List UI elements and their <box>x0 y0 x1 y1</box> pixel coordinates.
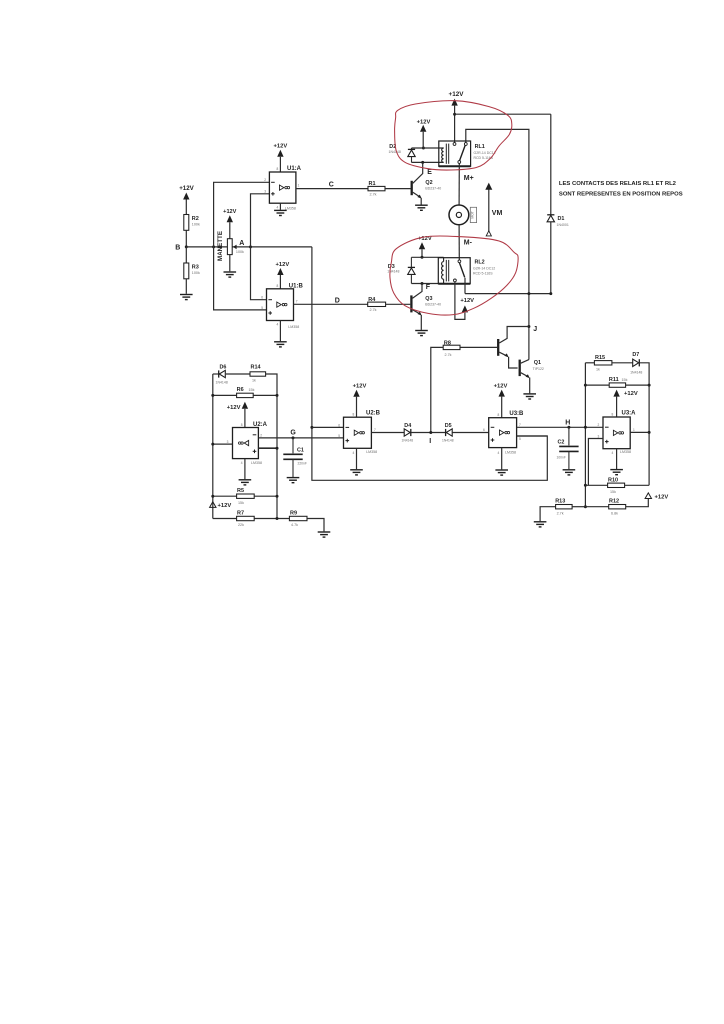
wire U3A output <box>630 431 649 433</box>
svg-text:D6: D6 <box>220 364 227 370</box>
svg-text:4: 4 <box>277 323 279 327</box>
svg-text:+12V: +12V <box>460 298 474 304</box>
svg-text:100k: 100k <box>192 223 200 227</box>
svg-text:SONT REPRESENTES EN POSITION R: SONT REPRESENTES EN POSITION REPOS <box>559 191 683 197</box>
wire B rail to U1A minus and U1B plus <box>214 182 270 247</box>
wire coil bottom to Q3 collector <box>413 284 423 299</box>
wire U2A plus stub <box>258 447 277 449</box>
svg-text:R11: R11 <box>609 377 619 383</box>
wire node B to node A rail <box>186 246 312 248</box>
node I <box>429 431 432 434</box>
svg-text:M+: M+ <box>464 175 474 182</box>
svg-text:2: 2 <box>264 178 266 182</box>
svg-text:2: 2 <box>260 434 262 438</box>
svg-text:+12V: +12V <box>218 503 232 509</box>
svg-text:M-: M- <box>464 240 473 247</box>
ground (U2A) <box>239 480 252 485</box>
svg-text:+12V: +12V <box>353 383 367 389</box>
wire coil top <box>412 147 444 149</box>
svg-text:D1: D1 <box>558 216 565 222</box>
wire D7 to right rail <box>639 363 649 486</box>
svg-text:8: 8 <box>241 423 243 427</box>
relay RL1 G2R-14 <box>439 141 471 166</box>
svg-text:1N4001: 1N4001 <box>557 223 569 227</box>
svg-text:22k: 22k <box>238 523 244 527</box>
power +12V (U2A) <box>242 402 248 409</box>
wire junction to U2B pin6 <box>312 426 344 428</box>
node B <box>185 245 188 248</box>
junction A rail to U2B <box>310 426 313 429</box>
svg-text:RL1: RL1 <box>475 144 485 150</box>
ground (U1B) <box>274 342 287 347</box>
wire U3A plus input to R10 <box>588 439 603 486</box>
wire A rail to U1A plus and U1B minus <box>251 194 270 247</box>
svg-text:BD237-40: BD237-40 <box>425 302 441 306</box>
svg-text:1N4148: 1N4148 <box>387 270 399 274</box>
wire U1A pin4 to ground <box>279 203 281 210</box>
svg-text:7: 7 <box>519 423 521 427</box>
power +12V (R2 divider) <box>183 193 189 200</box>
svg-text:B: B <box>175 245 180 252</box>
wire RL2 coil bottom node F <box>411 283 443 285</box>
svg-text:4: 4 <box>241 461 243 465</box>
power +12V (U1A) <box>277 150 283 157</box>
svg-text:LM358: LM358 <box>505 450 516 454</box>
svg-text:C: C <box>329 182 334 189</box>
wire D1 to relay common junction <box>550 222 552 294</box>
svg-text:G2R-14 DC12: G2R-14 DC12 <box>473 266 495 270</box>
wire U2A minus input <box>213 443 233 445</box>
junction B rail <box>212 245 215 248</box>
wire top feedback <box>213 373 219 375</box>
transistor Q2 BD237 <box>411 181 413 195</box>
wire left rail (oscillator) <box>212 374 214 519</box>
svg-text:U1:B: U1:B <box>289 283 304 289</box>
svg-text:U3:A: U3:A <box>622 411 637 417</box>
resistor R2 <box>184 215 189 231</box>
svg-text:G: G <box>290 429 296 436</box>
svg-text:8: 8 <box>277 284 279 288</box>
ground (R3) <box>180 295 193 300</box>
wire R10 <box>585 484 607 486</box>
svg-text:R14: R14 <box>251 364 262 370</box>
ground (Q1) <box>523 394 536 399</box>
resistor R13 2.7k <box>556 505 573 509</box>
svg-text:15k: 15k <box>622 378 628 382</box>
wire U1B pin4 to ground <box>279 321 281 342</box>
svg-text:R8: R8 <box>444 340 451 346</box>
svg-text:8: 8 <box>498 413 500 417</box>
wire coil bottom to Q2 collector <box>413 162 423 183</box>
svg-text:LM358: LM358 <box>288 325 299 329</box>
capacitor C2 100nF <box>568 427 570 445</box>
svg-text:LM358: LM358 <box>251 461 262 465</box>
svg-text:+12V: +12V <box>417 119 431 125</box>
wire RL2 NO contact to junction <box>464 278 466 294</box>
motor VM <box>449 205 469 225</box>
svg-text:+12V: +12V <box>274 143 288 149</box>
svg-text:Q3: Q3 <box>425 296 432 302</box>
svg-text:15k: 15k <box>249 388 255 392</box>
resistor R9 4.7k <box>289 516 307 520</box>
svg-text:R12: R12 <box>609 499 619 505</box>
svg-text:4.7k: 4.7k <box>291 523 298 527</box>
svg-text:U2:B: U2:B <box>366 410 381 416</box>
svg-text:1k: 1k <box>596 367 600 371</box>
svg-text:3: 3 <box>227 440 229 444</box>
transistor Q1 TIP122 second stage <box>519 360 521 377</box>
wire U3B output to node H <box>517 426 603 428</box>
power +12V triangle (R12) <box>645 493 651 499</box>
wire J to Q1 collector <box>499 327 529 344</box>
wire U2A pin4 to ground <box>244 459 246 480</box>
wire R2 to node B <box>185 230 187 247</box>
svg-text:A: A <box>239 240 244 247</box>
diode D5 1N4148 <box>446 429 453 436</box>
svg-text:R7: R7 <box>237 510 244 516</box>
red freehand circle around RL1 <box>395 101 512 170</box>
ground (MANETTE) <box>224 272 237 277</box>
svg-text:6.8k: 6.8k <box>611 511 618 515</box>
svg-text:+12V: +12V <box>494 383 508 389</box>
resistor R15 1k <box>594 361 612 365</box>
svg-text:MANETTE: MANETTE <box>217 231 224 261</box>
svg-text:8: 8 <box>612 412 614 416</box>
ground (U1A) <box>274 210 287 215</box>
svg-text:1: 1 <box>633 428 635 432</box>
resistor R12 6.8k <box>609 505 626 509</box>
node RL1 coil top <box>422 147 425 150</box>
ground (C1) <box>287 478 300 483</box>
svg-text:U3:B: U3:B <box>509 411 524 417</box>
wire D6 to R14 <box>226 373 250 375</box>
op-amp U3:B LM358 <box>489 418 517 448</box>
wire MANETTE to ground <box>229 255 231 272</box>
svg-text:R4: R4 <box>368 297 376 303</box>
power +12V (MANETTE) <box>227 215 233 222</box>
svg-text:H: H <box>565 420 570 427</box>
ground (C2) <box>563 470 576 475</box>
relay RL2 G2R-14 <box>438 258 470 284</box>
wire U2A output to node G <box>258 437 343 439</box>
svg-text:R15: R15 <box>595 355 605 361</box>
svg-text:6: 6 <box>338 423 340 427</box>
svg-text:3: 3 <box>264 190 266 194</box>
ground (Q2) <box>415 205 428 210</box>
svg-text:1N4148: 1N4148 <box>630 371 642 375</box>
svg-text:7: 7 <box>374 428 376 432</box>
diode D4 1N4148 <box>404 429 411 436</box>
wire RL1 contact to J column <box>466 129 529 359</box>
svg-text:100k: 100k <box>192 271 200 275</box>
svg-text:2: 2 <box>598 423 600 427</box>
svg-text:1N4148: 1N4148 <box>442 439 454 443</box>
svg-text:2.7k: 2.7k <box>445 353 452 357</box>
wire RL2 NC contact to +12V <box>455 282 465 320</box>
svg-text:+12V: +12V <box>624 391 638 397</box>
transistor Q1 TIP122 darlington first stage <box>497 339 499 356</box>
node H <box>567 426 570 429</box>
wire motor to RL2 common M- <box>458 225 460 260</box>
wire coil bottom node E <box>412 161 444 163</box>
svg-text:R6: R6 <box>237 387 244 393</box>
svg-text:2.7k: 2.7k <box>370 308 377 312</box>
Q2 emitter <box>413 192 421 197</box>
wire R6 <box>213 394 237 396</box>
op-amp U2:B LM358 <box>344 417 372 448</box>
wire RL2 coil top <box>411 256 443 258</box>
op-amp U3:A LM358 <box>603 417 630 449</box>
wire U2B pin4 to ground <box>356 448 358 469</box>
svg-text:D4: D4 <box>404 423 411 429</box>
svg-text:7: 7 <box>296 299 298 303</box>
ground (U2B) <box>350 470 363 475</box>
wire node B to R3 <box>185 247 187 263</box>
svg-text:Q2: Q2 <box>425 180 432 186</box>
svg-text:G2R-14 DC12: G2R-14 DC12 <box>474 151 496 155</box>
svg-text:100nF: 100nF <box>557 456 566 460</box>
svg-text:+12V: +12V <box>223 209 236 215</box>
red freehand circle around RL2 <box>390 236 518 315</box>
svg-text:RL2: RL2 <box>475 259 485 265</box>
svg-text:U1:A: U1:A <box>287 166 302 172</box>
wire R12 to +12V triangle <box>585 506 608 508</box>
wire node A to U3B plus input <box>312 247 547 480</box>
svg-text:E: E <box>427 169 432 176</box>
svg-text:220nF: 220nF <box>298 462 307 466</box>
wire R11 <box>585 384 609 386</box>
svg-text:100k: 100k <box>236 250 244 254</box>
svg-text:D7: D7 <box>632 352 639 358</box>
resistor R4 2.7k <box>368 302 386 306</box>
svg-text:5: 5 <box>261 306 263 310</box>
resistor R7 22k <box>237 516 255 520</box>
svg-text:R2: R2 <box>192 216 199 222</box>
junction node J <box>527 325 530 328</box>
svg-text:1N4148: 1N4148 <box>402 439 414 443</box>
svg-text:LM358: LM358 <box>366 450 377 454</box>
capacitor C1 220nF <box>292 438 294 453</box>
ground (U3A) <box>610 470 623 475</box>
node G <box>292 436 295 439</box>
wire R8 to Q1 base <box>460 346 497 348</box>
resistor R3 <box>184 263 189 279</box>
svg-text:J: J <box>533 326 537 333</box>
wire R7 to R9 <box>213 518 237 520</box>
svg-text:1N4148: 1N4148 <box>389 150 401 154</box>
Q1 first emitter to second base <box>499 352 507 356</box>
svg-text:2.7k: 2.7k <box>370 192 377 196</box>
svg-text:5: 5 <box>338 434 340 438</box>
junction A rail <box>249 245 252 248</box>
power +12V (U2B) <box>353 390 359 397</box>
wire U3A pin4 to ground <box>616 449 618 469</box>
wire R3 to ground <box>185 279 187 294</box>
svg-text:R13: R13 <box>555 499 565 505</box>
svg-text:R10: R10 <box>608 477 618 483</box>
svg-text:4: 4 <box>353 451 355 455</box>
svg-text:R5: R5 <box>237 488 244 494</box>
svg-text:D5: D5 <box>445 423 452 429</box>
wire RL1 common to motor M+ <box>458 163 460 205</box>
svg-text:8: 8 <box>353 413 355 417</box>
wire +12V to D1 <box>550 114 552 214</box>
svg-text:8: 8 <box>277 167 279 171</box>
svg-text:Q1: Q1 <box>534 360 541 366</box>
svg-text:1k: 1k <box>252 378 256 382</box>
svg-text:15k: 15k <box>610 490 616 494</box>
diode D6 1N4148 <box>219 370 226 377</box>
resistor R8 2.7k <box>443 345 460 349</box>
node RL2 coil top <box>421 256 424 259</box>
svg-text:RCD 5-116S: RCD 5-116S <box>473 271 493 275</box>
power +12V triangle (R7 rail) <box>210 502 216 508</box>
svg-text:+12V: +12V <box>655 494 669 500</box>
wire relay junction horizontal <box>465 293 551 295</box>
svg-text:1: 1 <box>298 184 300 188</box>
wire R9 to ground <box>307 519 324 532</box>
wire R13 <box>572 506 585 508</box>
svg-text:D: D <box>335 298 340 305</box>
wire R8 to node I <box>431 347 443 432</box>
ground (U3B) <box>495 470 508 475</box>
wire +12V to D1 anode column <box>455 113 551 115</box>
power +12V (RL2 coil) <box>419 242 425 249</box>
wire R1 to Q2 base <box>385 188 411 190</box>
wire R14 to right rail <box>266 374 277 519</box>
svg-text:+12V: +12V <box>276 262 290 268</box>
op-amp U1:A LM358 <box>269 172 296 203</box>
arrow VM <box>488 189 490 231</box>
svg-text:MOT: MOT <box>470 211 474 219</box>
resistor R5 15k <box>237 494 255 498</box>
power +12V (RL2 contact) <box>462 305 468 312</box>
resistor R1 2.7k <box>368 186 385 190</box>
wire R15 to D7 <box>612 362 633 364</box>
wire U2B output to D4 <box>371 432 404 434</box>
svg-text:1N4148: 1N4148 <box>216 380 228 384</box>
op-amp U2:A LM358 <box>233 428 259 459</box>
svg-text:LES CONTACTS DES RELAIS RL1 ET: LES CONTACTS DES RELAIS RL1 ET RL2 <box>559 181 677 187</box>
svg-text:15k: 15k <box>238 501 244 505</box>
wire U3B pin4 to ground <box>501 448 503 470</box>
svg-text:U2:A: U2:A <box>253 422 268 428</box>
svg-text:LM358: LM358 <box>620 450 631 454</box>
svg-text:R3: R3 <box>192 264 199 270</box>
Q1 collector second stage <box>521 360 529 364</box>
power +12V (U1B) <box>277 268 283 275</box>
resistor R10 15k <box>608 483 625 487</box>
diode D7 1N4148 <box>633 359 640 366</box>
svg-text:6: 6 <box>483 428 485 432</box>
ground (R9) <box>318 532 331 537</box>
svg-text:R1: R1 <box>369 181 376 187</box>
svg-text:VM: VM <box>492 210 503 217</box>
ground (Q3) <box>415 331 428 336</box>
resistor R14 1k <box>250 372 266 376</box>
svg-text:2.7k: 2.7k <box>557 511 564 515</box>
svg-text:C1: C1 <box>297 448 304 454</box>
svg-text:4: 4 <box>498 451 500 455</box>
diode D2 1N4148 <box>411 148 413 149</box>
Q1 emitter <box>521 373 529 377</box>
power +12V (U3B) <box>499 390 505 397</box>
potentiometer MANETTE 100k <box>227 239 232 255</box>
svg-text:3: 3 <box>598 434 600 438</box>
junction +12V top <box>453 113 456 116</box>
wire D5 to U3B <box>452 432 489 434</box>
diode D1 1N4001 <box>547 215 554 222</box>
svg-text:I: I <box>429 438 431 445</box>
resistor R11 15k <box>609 383 625 387</box>
wire R5 <box>213 495 237 497</box>
op-amp U1:B LM358 <box>267 289 294 321</box>
wire U3B plus stub <box>517 435 548 437</box>
transistor Q3 BD237 <box>410 295 412 312</box>
power +12V (RL1 coil) <box>420 125 426 132</box>
power +12V (U3A) <box>613 390 619 397</box>
svg-text:F: F <box>426 284 431 291</box>
wire left rail (U3A) <box>584 363 586 507</box>
svg-text:5: 5 <box>519 437 521 441</box>
resistor R6 15k <box>237 393 254 397</box>
power +12V (main relay supply) <box>451 99 457 106</box>
svg-text:BD237-40: BD237-40 <box>425 186 441 190</box>
svg-text:+12V: +12V <box>179 185 194 192</box>
wire R4 to Q3 base <box>386 303 411 305</box>
ground (R13) <box>534 522 547 527</box>
svg-text:C2: C2 <box>558 440 565 446</box>
Q3 emitter <box>413 310 421 315</box>
wire U1B output node D <box>294 303 368 305</box>
svg-text:+12V: +12V <box>449 91 465 98</box>
svg-text:R9: R9 <box>290 510 297 516</box>
wire U1A output node C <box>296 188 368 190</box>
wire D4 to node I <box>411 432 446 434</box>
diode D3 1N4148 <box>410 257 412 267</box>
svg-text:4: 4 <box>277 205 279 209</box>
svg-text:TIP122: TIP122 <box>533 367 544 371</box>
svg-text:+12V: +12V <box>227 405 241 411</box>
svg-text:6: 6 <box>261 296 263 300</box>
svg-text:4: 4 <box>612 451 614 455</box>
wire top feedback (R15 D7) <box>585 362 594 364</box>
